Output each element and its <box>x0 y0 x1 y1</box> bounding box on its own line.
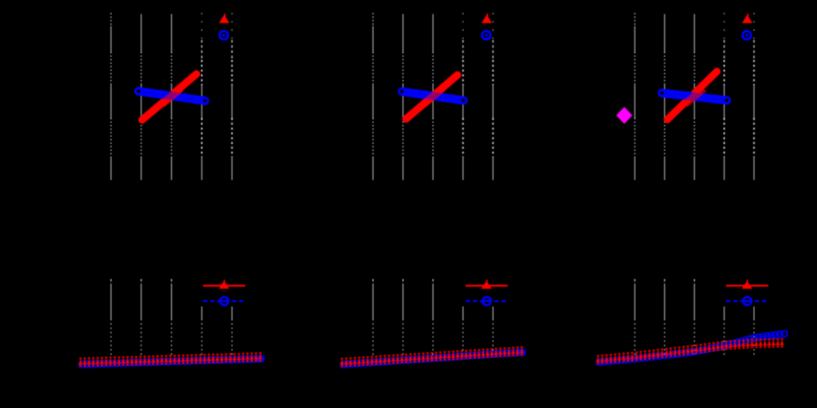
top panel 1 red hatch in crossing region <box>160 86 183 107</box>
bottom panel 1 blue series end error caps <box>79 356 262 368</box>
top panel 3 gridline 5 at x=754 <box>753 13 755 180</box>
bottom panel 2 gridline 1 at x=373 <box>372 279 374 356</box>
bottom panel 1 blue series dashed line <box>81 359 261 365</box>
top panel 2 legend red triangle marker <box>482 14 492 24</box>
top panel 1 blue band end rings <box>137 89 207 102</box>
top panel 3 gridline 4 at x=724.2 <box>723 13 725 180</box>
top panel 2 blue fit band (circle markers) <box>402 92 464 101</box>
bottom panel 2 blue series end error caps <box>341 349 524 367</box>
top panel 1 gridline 2 at x=141.2 <box>140 14 142 180</box>
bottom panel 1 gridline 5 at x=232 <box>231 307 233 357</box>
bottom panel 1 gridline 4 at x=201.8 <box>201 307 203 357</box>
bottom panel 2 gridline 2 at x=403 <box>402 279 404 356</box>
top panel 2 legend blue open circle marker <box>482 31 490 39</box>
top panel 3 magenta diamond marker <box>616 107 632 124</box>
top panel 2 red fit band (triangle markers) <box>406 75 458 119</box>
top panel 2 gridline 1 at x=373 <box>372 13 374 180</box>
top panel 3 gridline 2 at x=664.6 <box>664 14 666 180</box>
bottom panel 1 blue series circle markers <box>80 356 264 368</box>
bottom panel 3 blue series end error caps <box>597 331 787 366</box>
bottom panel 2 gridline 5 at x=493 <box>492 307 494 357</box>
top panel 2 gridline 2 at x=403 <box>402 14 404 180</box>
bottom panel 3 gridline 3 at x=694.4 <box>693 279 695 356</box>
bottom panel 3 gridline 1 at x=634.8 <box>634 279 636 356</box>
bottom panel 2 red series error bars and triangle markers <box>340 346 524 367</box>
top panel 1 gridline 5 at x=232 <box>231 13 233 180</box>
bottom panel 2 blue series circle markers <box>341 349 525 367</box>
top panel 3 gridline 1 at x=634.8 <box>634 13 636 180</box>
bottom panel 2 blue series dashed line <box>342 352 522 364</box>
top panel 2 gridline 5 at x=493 <box>492 13 494 180</box>
top panel 2 blue band speckle texture <box>402 92 463 101</box>
bottom panel 2 gridline 3 at x=433 <box>432 279 434 356</box>
top panel 3 blue band speckle texture <box>662 92 726 101</box>
top panel 1 red fit band (triangle markers) <box>142 74 197 120</box>
top panel 3 blue band end rings <box>660 91 728 102</box>
bottom panel 1 gridline 1 at x=111 <box>110 279 112 356</box>
top panel 1 gridline 3 at x=171.5 <box>171 14 173 180</box>
top panel 3 gridline 3 at x=694.4 <box>693 14 695 180</box>
top panel 3 legend blue open circle marker <box>743 31 751 39</box>
top panel 1 blue band speckle texture <box>143 92 205 101</box>
top panel 2 gridline 3 at x=433 <box>432 14 434 180</box>
top panel 1 legend red triangle marker <box>219 14 229 24</box>
bottom panel 3 red series error bars and triangle markers <box>596 338 784 364</box>
bottom panel 1 gridline 2 at x=141.2 <box>140 279 142 356</box>
top panel 2 blue band end rings <box>400 90 465 102</box>
bottom panel 2 gridline 4 at x=463 <box>462 307 464 357</box>
top panel 1 gridline 4 at x=201.8 <box>201 13 203 180</box>
top panel 1 blue fit band (circle markers) <box>139 91 206 101</box>
bottom panel 3 gridline 2 at x=664.6 <box>664 279 666 356</box>
bottom panel 3 legend blue dashed line with open circle <box>726 297 768 305</box>
bottom panel 1 legend red line with triangle <box>203 280 245 289</box>
top panel 1 legend blue open circle marker <box>220 31 228 39</box>
bottom panel 1 legend blue dashed line with open circle <box>203 297 245 305</box>
top panel 3 legend red triangle marker <box>742 14 752 24</box>
bottom panel 3 legend red line with triangle <box>726 280 768 289</box>
top panel 2 gridline 4 at x=463 <box>462 13 464 180</box>
top panel 3 red fit band (triangle markers) <box>667 72 717 120</box>
top panel 2 red hatch in crossing region <box>422 86 445 107</box>
top panel 1 gridline 1 at x=111 <box>110 13 112 180</box>
bottom panel 2 legend blue dashed line with open circle <box>466 297 508 305</box>
top panel 3 red hatch in crossing region <box>683 86 706 107</box>
bottom panel 3 blue series circle markers <box>597 331 787 365</box>
bottom panel 3 gridline 4 at x=724.2 <box>723 307 725 357</box>
bottom panel 3 blue series dashed line <box>598 334 782 362</box>
bottom panel 1 red series error bars and triangle markers <box>79 352 263 367</box>
bottom panel 2 legend red line with triangle <box>466 280 508 289</box>
bottom panel 3 gridline 5 at x=754 <box>753 307 755 357</box>
top panel 3 blue fit band (circle markers) <box>662 93 727 100</box>
bottom panel 1 gridline 3 at x=171.5 <box>171 279 173 356</box>
